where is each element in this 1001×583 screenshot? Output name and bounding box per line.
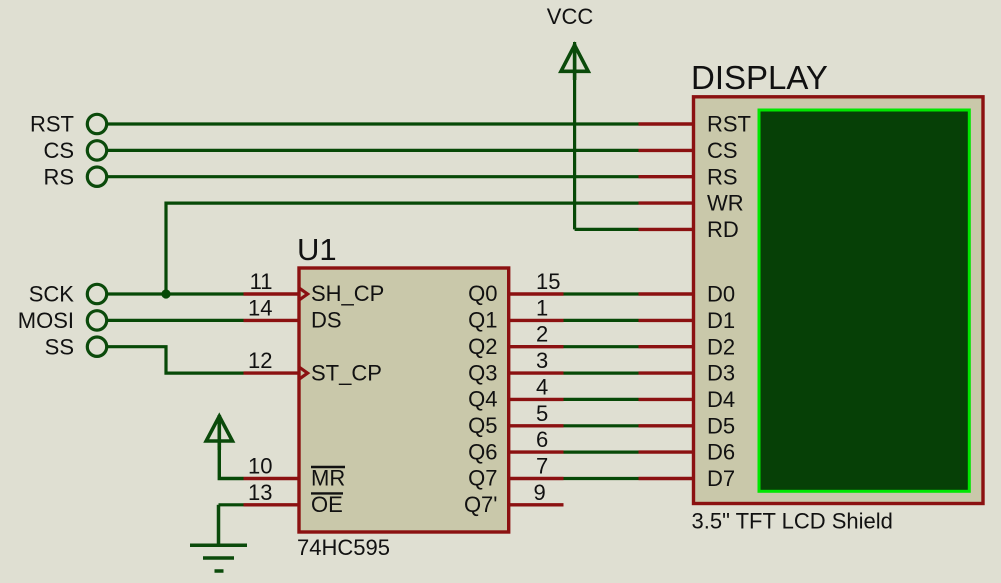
svg-text:CS: CS: [43, 138, 74, 163]
svg-text:SCK: SCK: [29, 282, 75, 307]
pin 6 Q6 stub: [509, 450, 564, 453]
svg-text:Q4: Q4: [468, 387, 497, 412]
wire D6 net: [564, 451, 639, 454]
svg-text:13: 13: [248, 480, 272, 505]
display pin D7 stub: [639, 477, 694, 480]
svg-text:Q7': Q7': [464, 492, 498, 517]
terminal MOSI: [87, 311, 106, 330]
svg-text:7: 7: [536, 454, 548, 479]
wire RD net: [575, 228, 639, 231]
power symbol VCC (top): [561, 44, 588, 80]
svg-text:4: 4: [536, 374, 548, 399]
svg-text:12: 12: [248, 348, 272, 373]
terminal RST: [87, 114, 106, 133]
display screen: [759, 110, 969, 491]
svg-text:D2: D2: [707, 334, 735, 359]
power symbol VCC (at MR pin): [206, 415, 232, 450]
wire D1 net: [564, 319, 639, 322]
clock triangle pin 12: [299, 367, 308, 379]
pin 4 Q4 stub: [509, 398, 564, 401]
svg-text:D0: D0: [707, 282, 735, 307]
wire RST net: [107, 122, 639, 125]
svg-text:Q7: Q7: [468, 466, 497, 491]
svg-text:74HC595: 74HC595: [297, 535, 390, 560]
terminal CS: [87, 141, 106, 160]
svg-text:SS: SS: [45, 334, 74, 359]
pin 13 OE stub: [244, 503, 300, 506]
svg-text:5: 5: [536, 401, 548, 426]
svg-text:RST: RST: [707, 112, 751, 137]
display pin D4 stub: [639, 398, 694, 401]
svg-text:11: 11: [250, 269, 273, 294]
terminal RS: [87, 167, 106, 186]
pin 5 Q5 stub: [509, 424, 564, 427]
svg-text:1: 1: [536, 295, 548, 320]
clock triangle pin 11: [299, 288, 308, 300]
display pin D3 stub: [639, 371, 694, 374]
svg-text:Q1: Q1: [468, 308, 497, 333]
IC U1 74HC595 body: [299, 268, 509, 532]
svg-text:D7: D7: [707, 466, 735, 491]
wire D0 net: [564, 292, 639, 295]
svg-text:RST: RST: [30, 112, 74, 137]
pin 7 Q7 stub: [509, 477, 564, 480]
wire VCC vertical: [573, 42, 576, 229]
terminal SS: [87, 337, 106, 356]
wire D5 net: [564, 424, 639, 427]
pin 11 SH_CP stub: [244, 292, 300, 295]
svg-text:WR: WR: [707, 191, 744, 216]
svg-text:RS: RS: [43, 164, 74, 189]
wire D2 net: [564, 345, 639, 348]
wire RS net: [107, 175, 639, 178]
svg-text:9: 9: [534, 480, 546, 505]
svg-text:RS: RS: [707, 164, 738, 189]
svg-text:RD: RD: [707, 217, 739, 242]
display pin RST stub: [639, 122, 694, 125]
pin 15 Q0 stub: [509, 292, 564, 295]
svg-text:ST_CP: ST_CP: [311, 360, 382, 385]
pin 1 Q1 stub: [509, 319, 564, 322]
pin 3 Q3 stub: [509, 371, 564, 374]
wire D4 net: [564, 398, 639, 401]
svg-text:Q6: Q6: [468, 439, 497, 464]
svg-text:3.5" TFT LCD Shield: 3.5" TFT LCD Shield: [692, 509, 893, 534]
wire D3 net: [564, 372, 639, 375]
svg-text:MOSI: MOSI: [18, 308, 74, 333]
display pin D1 stub: [639, 319, 694, 322]
wire CS net: [107, 149, 639, 152]
svg-text:U1: U1: [297, 232, 337, 267]
display pin D0 stub: [639, 292, 694, 295]
svg-text:VCC: VCC: [547, 4, 594, 29]
pin 9 Q7' stub: [509, 503, 564, 506]
wire WR net: [166, 203, 639, 294]
svg-text:Q5: Q5: [468, 413, 497, 438]
svg-text:CS: CS: [707, 138, 738, 163]
svg-text:D4: D4: [707, 387, 735, 412]
svg-text:3: 3: [536, 348, 548, 373]
wire OE to ground: [219, 503, 244, 506]
pin 2 Q2 stub: [509, 345, 564, 348]
svg-text:Q2: Q2: [468, 334, 497, 359]
wire D7 net: [564, 477, 639, 480]
terminal SCK: [87, 284, 106, 303]
svg-text:DISPLAY: DISPLAY: [691, 59, 828, 96]
svg-text:14: 14: [248, 295, 272, 320]
wire SS net: [107, 347, 244, 373]
ground symbol: [190, 505, 247, 571]
svg-text:D6: D6: [707, 440, 735, 465]
display pin RS stub: [639, 175, 694, 178]
display pin D5 stub: [639, 424, 694, 427]
svg-text:MR: MR: [311, 466, 345, 491]
display module body: [694, 97, 984, 504]
svg-text:OE: OE: [311, 492, 343, 517]
pin 10 MR stub: [244, 477, 300, 480]
svg-text:D5: D5: [707, 413, 735, 438]
svg-text:D1: D1: [707, 308, 735, 333]
display pin D2 stub: [639, 345, 694, 348]
svg-text:10: 10: [248, 454, 272, 479]
display pin RD stub: [639, 228, 694, 231]
display pin D6 stub: [639, 450, 694, 453]
svg-text:2: 2: [536, 322, 548, 347]
wire MOSI net: [107, 319, 244, 322]
pin 14 DS stub: [244, 319, 300, 322]
svg-text:Q0: Q0: [468, 281, 497, 306]
svg-text:SH_CP: SH_CP: [311, 281, 384, 306]
display pin CS stub: [639, 149, 694, 152]
wire SCK net: [107, 292, 244, 295]
svg-text:DS: DS: [311, 308, 342, 333]
junction dot SCK/WR: [161, 289, 170, 298]
svg-text:D3: D3: [707, 361, 735, 386]
svg-text:Q3: Q3: [468, 360, 497, 385]
display pin WR stub: [639, 201, 694, 204]
pin 12 ST_CP stub: [244, 371, 300, 374]
svg-text:15: 15: [536, 269, 560, 294]
svg-text:6: 6: [536, 427, 548, 452]
